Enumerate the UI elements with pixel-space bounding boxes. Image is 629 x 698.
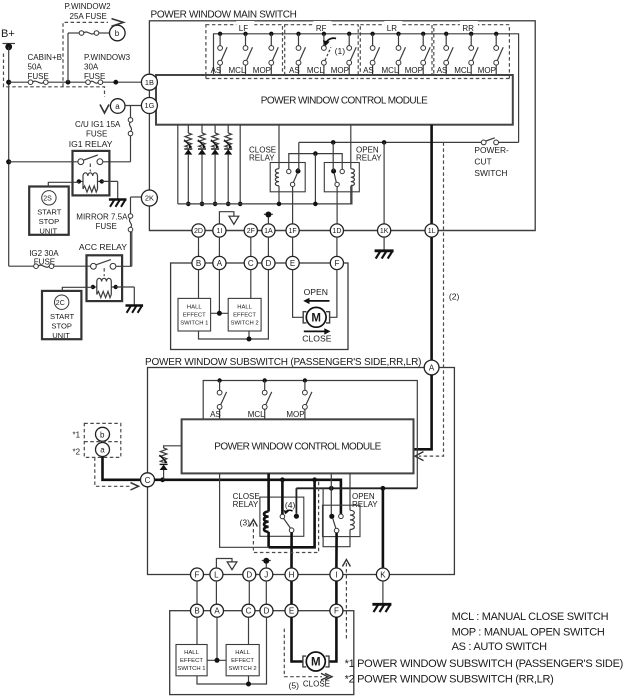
svg-text:B: B — [194, 607, 199, 616]
svg-text:1G: 1G — [144, 101, 154, 110]
wire F to motor (sub thick) — [329, 617, 337, 661]
svg-text:EFFECT: EFFECT — [180, 658, 203, 664]
svg-text:a: a — [115, 102, 120, 111]
svg-text:2S: 2S — [43, 196, 52, 203]
annotation (3) dashed loop — [240, 481, 319, 553]
svg-text:C/U IG1 15A: C/U IG1 15A — [75, 120, 121, 129]
svg-text:POWER WINDOW CONTROL MODULE: POWER WINDOW CONTROL MODULE — [261, 96, 428, 107]
relay ACC — [87, 255, 123, 301]
switch MOP (LF) — [253, 32, 278, 75]
svg-text:SWITCH 2: SWITCH 2 — [229, 666, 257, 672]
svg-text:LR: LR — [387, 24, 397, 33]
wire 1L to module (thick) — [430, 125, 433, 225]
switch AS (LR) — [363, 32, 380, 75]
label C/U IG1 15A FUSE — [75, 120, 121, 139]
svg-text:POWER WINDOW MAIN SWITCH: POWER WINDOW MAIN SWITCH — [151, 10, 297, 21]
wire C to hall2 — [250, 270, 252, 299]
svg-text:L: L — [214, 570, 219, 579]
svg-text:1I: 1I — [216, 228, 222, 235]
wire C supply line (thick) — [155, 477, 341, 514]
connector H (sub row) — [285, 568, 298, 581]
wire power-cut to open relay contact — [332, 142, 334, 171]
wire IG1 coil to ground — [102, 181, 118, 198]
svg-text:*2 POWER WINDOW SUBSWITCH (RR,: *2 POWER WINDOW SUBSWITCH (RR,LR) — [345, 673, 554, 685]
svg-text:2C: 2C — [56, 300, 65, 307]
group box LR — [360, 21, 432, 79]
wire a to C (thick) — [103, 457, 141, 480]
svg-text:CABIN+B: CABIN+B — [28, 53, 62, 62]
svg-text:C: C — [248, 259, 254, 268]
connector B (main assembly) — [192, 256, 205, 269]
svg-text:FUSE: FUSE — [86, 130, 107, 139]
connector 1G — [141, 98, 157, 114]
connector 1K — [378, 224, 391, 237]
svg-text:EFFECT: EFFECT — [183, 312, 206, 318]
svg-text:RF: RF — [316, 24, 327, 33]
wire B+ to IG1 contact — [9, 161, 78, 163]
wire C to hall2 (sub) — [248, 617, 250, 644]
wire D to hall bottoms — [199, 270, 269, 342]
wire connector row (main) — [149, 230, 535, 232]
svg-text:CLOSE: CLOSE — [302, 334, 331, 344]
svg-text:F: F — [195, 570, 200, 579]
connector C — [141, 473, 155, 487]
label P.WINDOW3 30A FUSE — [84, 53, 131, 81]
wire row link x=216.4 — [215, 581, 217, 604]
svg-text:MOP : MANUAL OPEN SWITCH: MOP : MANUAL OPEN SWITCH — [452, 627, 605, 639]
label CLOSE RELAY (main) — [249, 146, 276, 163]
svg-text:MCL: MCL — [454, 66, 471, 75]
dashed arrowhead to a — [100, 105, 109, 114]
dashed arrowhead at C — [131, 483, 139, 490]
wire A to hall link (sub) — [207, 617, 226, 663]
dashed flow arrow from B+ — [4, 22, 109, 97]
svg-text:AS: AS — [437, 66, 448, 75]
wire 2S to IG1 coil — [48, 182, 79, 186]
svg-text:C: C — [145, 476, 151, 485]
wire K drop (thick) — [382, 488, 385, 568]
wire link C — [250, 237, 252, 256]
connector I (sub row) — [330, 568, 343, 581]
connector 1L — [425, 224, 438, 237]
wire ACC coil to ground — [116, 287, 135, 305]
svg-text:D: D — [246, 570, 252, 579]
resistor+diode chain at x=188.3 — [184, 125, 192, 207]
wire K to ground — [382, 581, 384, 603]
fuse P.WINDOW3 30A — [86, 80, 103, 85]
wire B+ rail to ACC contact — [9, 265, 91, 267]
connector D (main assembly) — [262, 256, 275, 269]
svg-text:E: E — [290, 259, 295, 268]
svg-text:1K: 1K — [380, 228, 389, 235]
connector 2D — [192, 224, 205, 237]
svg-text:POWER WINDOW SUBSWITCH (PASSEN: POWER WINDOW SUBSWITCH (PASSENGER'S SIDE… — [145, 357, 421, 368]
wire power-cut line — [299, 140, 519, 145]
svg-text:2K: 2K — [145, 194, 154, 203]
connector F (sub assembly) — [330, 604, 343, 617]
wire 2K to MIRROR fuse — [131, 197, 142, 266]
ground IG1 — [109, 200, 127, 207]
svg-text:UNIT: UNIT — [52, 331, 70, 340]
svg-text:F: F — [334, 259, 339, 268]
group box LR bottom edge — [360, 78, 432, 80]
svg-text:A: A — [429, 364, 435, 373]
marker battery dot at 1A — [264, 212, 273, 224]
wire K return line — [296, 486, 417, 514]
fuse MIRROR 7.5A — [128, 214, 133, 232]
connector E (main assembly) — [286, 256, 299, 269]
wire E to motor — [293, 270, 304, 318]
svg-text:HALL: HALL — [187, 304, 202, 310]
label OPEN RELAY (sub) — [352, 492, 378, 509]
relay CLOSE (sub) — [260, 473, 304, 547]
svg-text:CUT: CUT — [474, 156, 491, 166]
svg-text:*1: *1 — [73, 431, 81, 440]
connector 1D — [330, 224, 343, 237]
svg-text:START: START — [50, 312, 75, 321]
wire link E — [292, 237, 294, 256]
fuse CABIN+B 50A — [28, 80, 48, 85]
svg-text:1F: 1F — [289, 228, 297, 235]
B+ terminal — [3, 43, 16, 50]
svg-text:1A: 1A — [264, 228, 273, 235]
svg-text:ACC RELAY: ACC RELAY — [79, 242, 127, 252]
svg-text:MOP: MOP — [331, 66, 349, 75]
ground 1K — [375, 251, 394, 259]
svg-text:(1): (1) — [335, 46, 346, 56]
wire open relay to 1D — [336, 187, 338, 224]
motor M (main) — [303, 307, 329, 327]
svg-text:MCL: MCL — [229, 66, 246, 75]
hall effect switch 1 (main) — [178, 298, 211, 331]
svg-text:A: A — [217, 259, 223, 268]
wire ACC contact to fuse riser — [116, 232, 132, 266]
wire module to sense bus (x=240.2) — [238, 125, 243, 207]
group box LF — [206, 21, 283, 79]
svg-text:HALL: HALL — [235, 650, 250, 656]
switch POWER-CUT — [481, 138, 498, 145]
group box RF bottom edge — [285, 78, 359, 80]
svg-text:(5): (5) — [289, 681, 300, 691]
connector E (sub assembly) — [285, 604, 298, 617]
svg-text:UNIT: UNIT — [39, 227, 57, 236]
group box RR bottom edge — [434, 78, 510, 80]
svg-text:1B: 1B — [145, 78, 154, 87]
wire 2C to ACC coil — [62, 287, 93, 291]
label MIRROR 7.5A FUSE — [76, 213, 128, 232]
wire power-cut to close relay contact — [297, 142, 300, 171]
resistor+diode from sub module — [159, 446, 181, 480]
connector b (to subswitch) — [110, 25, 126, 41]
svg-text:AS : AUTO SWITCH: AS : AUTO SWITCH — [452, 641, 548, 653]
switch MCL (RF) — [307, 32, 331, 75]
window motor assembly box (main) — [171, 263, 348, 350]
fuse C/U IG1 15A — [128, 118, 133, 136]
svg-text:MCL: MCL — [248, 410, 265, 419]
window motor assembly box (sub) — [170, 611, 354, 695]
wire D to hall bottoms (sub) — [197, 617, 267, 686]
marker enable arrow at 1I — [219, 212, 238, 225]
group box RF — [285, 21, 359, 79]
svg-text:RELAY: RELAY — [352, 500, 378, 509]
label CLOSE with arrow — [302, 328, 331, 343]
wire close relay contact from C line — [281, 480, 284, 514]
wire relay common contacts tie — [289, 151, 342, 206]
connector 1F — [286, 224, 299, 237]
svg-text:*1 POWER WINDOW SUBSWITCH (PAS: *1 POWER WINDOW SUBSWITCH (PASSENGER'S S… — [345, 658, 623, 670]
svg-text:(4): (4) — [285, 500, 296, 510]
motor M (sub) — [303, 652, 329, 671]
svg-text:H: H — [289, 570, 295, 579]
connector A (main assembly) — [213, 256, 226, 269]
svg-text:a: a — [100, 446, 105, 455]
svg-text:K: K — [380, 570, 386, 579]
wire coil loop to C line (thick) — [269, 480, 315, 548]
wire main feed to 1B — [9, 80, 142, 85]
svg-text:B: B — [196, 259, 201, 268]
connector K (sub row) — [376, 568, 389, 581]
svg-text:AS: AS — [211, 66, 222, 75]
ground ACC — [126, 306, 144, 313]
group box LF bottom edge — [206, 78, 283, 80]
wire a to 1G node — [125, 105, 142, 107]
svg-text:START: START — [37, 208, 62, 217]
svg-text:I: I — [335, 570, 337, 579]
hall effect switch 1 (sub) — [176, 645, 207, 676]
wire 1L to connector A (thick) — [430, 237, 433, 360]
svg-text:IG1 RELAY: IG1 RELAY — [69, 139, 113, 149]
svg-text:MCL: MCL — [382, 66, 399, 75]
svg-text:FUSE: FUSE — [96, 222, 117, 231]
resistor+diode chain at x=228.2 — [224, 125, 232, 207]
svg-text:POWER WINDOW CONTROL MODULE: POWER WINDOW CONTROL MODULE — [214, 442, 381, 453]
svg-text:MCL : MANUAL CLOSE SWITCH: MCL : MANUAL CLOSE SWITCH — [452, 611, 609, 623]
svg-text:SWITCH: SWITCH — [474, 168, 507, 178]
svg-text:B+: B+ — [1, 28, 15, 40]
svg-text:RELAY: RELAY — [356, 154, 382, 163]
svg-text:1D: 1D — [332, 228, 341, 235]
power window control module (main) — [156, 75, 513, 125]
switch MOP (RR) — [478, 32, 504, 75]
label OPEN with arrow — [303, 287, 329, 304]
marker enable arrow at L — [216, 559, 237, 570]
connector A (sub assembly) — [211, 604, 224, 617]
wire open relay to I (thick) — [335, 533, 338, 568]
svg-text:P.WINDOW3: P.WINDOW3 — [84, 53, 131, 62]
svg-text:2D: 2D — [194, 228, 203, 235]
svg-text:AS: AS — [289, 66, 300, 75]
connector 1A — [262, 224, 275, 237]
connector 1I — [213, 224, 226, 237]
label IG2 30A FUSE — [29, 249, 59, 267]
svg-text:MOP: MOP — [253, 66, 271, 75]
label CLOSE RELAY (sub) — [233, 492, 260, 509]
svg-text:AS: AS — [210, 410, 221, 419]
label POWER-CUT SWITCH — [474, 145, 509, 178]
wire B to hall1 (sub) — [196, 617, 198, 644]
dashed flow into C — [95, 457, 131, 486]
annotation dashed at I — [342, 560, 350, 641]
wire A to sub module (thick) — [414, 375, 432, 449]
wire module pin to coil rail — [220, 473, 269, 547]
connector b (sub side) — [96, 427, 110, 441]
connector B (sub assembly) — [191, 604, 204, 617]
wire link B — [198, 237, 200, 256]
svg-text:SWITCH 1: SWITCH 1 — [177, 666, 205, 672]
svg-text:OPEN: OPEN — [304, 287, 328, 297]
wire module to open relay contact — [330, 473, 332, 514]
annotation (4) — [284, 500, 296, 514]
switch AS (LF) — [211, 32, 228, 75]
switch AS (RF) — [289, 32, 306, 75]
wire switch bus (sub) — [203, 381, 417, 489]
wire 1K to power-cut line — [383, 142, 385, 224]
wire link F — [336, 237, 338, 256]
svg-text:MIRROR 7.5A: MIRROR 7.5A — [76, 213, 128, 222]
wire link A — [218, 237, 220, 256]
wire 1K to ground — [383, 237, 385, 249]
connector C (main assembly) — [244, 256, 257, 269]
unit 2S START STOP — [29, 187, 68, 236]
relay IG1 — [73, 151, 110, 196]
svg-text:MCL: MCL — [307, 66, 324, 75]
hall effect switch 2 (sub) — [226, 645, 259, 676]
svg-text:A: A — [214, 607, 220, 616]
connector 2F — [244, 224, 257, 237]
wire row link x=249.3 — [248, 581, 250, 604]
svg-text:MOP: MOP — [478, 66, 496, 75]
wire B+ rail — [6, 47, 11, 266]
svg-text:AS: AS — [363, 66, 374, 75]
wire close relay to H (thick) — [290, 533, 293, 569]
connector A — [424, 360, 439, 375]
wire row link x=197 — [196, 581, 198, 604]
svg-text:RELAY: RELAY — [249, 154, 275, 163]
label OPEN RELAY (main) — [356, 146, 382, 163]
svg-text:25A FUSE: 25A FUSE — [70, 12, 107, 21]
svg-text:FUSE: FUSE — [84, 72, 105, 81]
svg-text:LF: LF — [239, 24, 248, 33]
svg-text:b: b — [100, 430, 105, 439]
switch MOP (RF) — [331, 32, 357, 75]
wire row link x=266.3 — [265, 581, 267, 604]
connector 1B — [141, 74, 157, 90]
wire sense bus — [178, 185, 352, 204]
svg-text:C: C — [246, 607, 252, 616]
switch MCL (LF) — [229, 32, 253, 75]
svg-text:(2): (2) — [449, 292, 460, 302]
annotation (1) actuation arrow — [323, 38, 345, 56]
relay OPEN (sub) — [323, 473, 361, 546]
connector 2K — [141, 190, 157, 206]
wire 1G node down to C/U fuse — [103, 106, 131, 162]
connector a (sub side) — [96, 443, 110, 457]
main switch outer box — [149, 21, 535, 231]
svg-text:D: D — [264, 607, 270, 616]
subswitch outer box — [148, 368, 455, 575]
wire E to motor (sub thick) — [292, 617, 304, 661]
switch MCL (RR) — [454, 32, 478, 75]
svg-text:J: J — [264, 570, 268, 579]
svg-text:b: b — [115, 29, 120, 38]
svg-text:MOP: MOP — [286, 410, 304, 419]
switch MOP (LR) — [405, 32, 431, 75]
switch AS (RR) — [437, 32, 454, 75]
svg-text:2F: 2F — [247, 228, 255, 235]
connector F (sub row) — [191, 568, 204, 581]
marker battery dot at J — [262, 558, 271, 568]
svg-text:STOP: STOP — [39, 217, 60, 226]
wire row link x=336.4 — [335, 581, 338, 604]
fuse P.WINDOW2 25A — [79, 31, 99, 36]
svg-text:SWITCH 1: SWITCH 1 — [180, 320, 208, 326]
label CABIN+B 50A FUSE — [28, 53, 62, 81]
svg-text:HALL: HALL — [237, 304, 252, 310]
switch MCL (LR) — [382, 32, 406, 75]
resistor+diode chain at x=215.1 — [211, 125, 219, 207]
dashed signal line (2) — [419, 142, 444, 456]
wire row link x=291.5 — [290, 581, 293, 604]
hall effect switch 2 (main) — [228, 298, 261, 331]
connector L (sub row) — [210, 568, 223, 581]
connector a (to subswitch) — [110, 99, 125, 114]
svg-text:HALL: HALL — [184, 650, 199, 656]
relay CLOSE (main) — [270, 125, 305, 207]
svg-text:MOP: MOP — [405, 66, 423, 75]
wire link D — [267, 237, 269, 256]
svg-text:(3): (3) — [240, 518, 251, 528]
svg-text:P.WINDOW2: P.WINDOW2 — [65, 2, 112, 11]
wire module to sense bus (left drop) — [177, 125, 179, 204]
dashed box around b/a — [84, 423, 121, 457]
fuse IG2 30A — [34, 264, 54, 269]
svg-text:SWITCH 2: SWITCH 2 — [231, 320, 259, 326]
svg-text:CLOSE: CLOSE — [303, 680, 330, 689]
svg-text:RR: RR — [462, 24, 474, 33]
svg-text:*2: *2 — [73, 448, 81, 457]
wire A to hall link — [211, 270, 229, 316]
connector C (sub assembly) — [242, 604, 255, 617]
switch MOP (sub) — [286, 378, 312, 419]
svg-text:E: E — [289, 607, 294, 616]
ground K — [372, 604, 391, 612]
svg-text:F: F — [334, 607, 339, 616]
power window control module (sub) — [182, 419, 414, 473]
wire B to hall1 — [198, 270, 200, 299]
wire switch bus (main) — [214, 34, 519, 143]
svg-text:30A: 30A — [84, 63, 99, 72]
svg-text:M: M — [311, 657, 321, 669]
switch AS (sub) — [210, 378, 227, 419]
svg-text:EFFECT: EFFECT — [231, 658, 254, 664]
connector J (sub row) — [260, 568, 273, 581]
arrowhead into sub module — [415, 452, 424, 461]
svg-text:RELAY: RELAY — [233, 500, 259, 509]
svg-text:M: M — [311, 313, 321, 325]
wire close relay to 1F — [292, 187, 294, 224]
dashed arrowhead to b — [112, 19, 124, 27]
wire F to motor — [330, 270, 337, 318]
connector D (sub assembly) — [260, 604, 273, 617]
group box RR — [434, 21, 510, 79]
switch MCL (sub) — [248, 378, 272, 419]
svg-text:D: D — [266, 259, 272, 268]
wire to connector b — [68, 33, 110, 82]
unit 2C START STOP — [42, 291, 81, 340]
svg-text:FUSE: FUSE — [28, 72, 49, 81]
label P.WINDOW2 25A FUSE — [65, 2, 112, 21]
svg-text:STOP: STOP — [51, 321, 72, 330]
